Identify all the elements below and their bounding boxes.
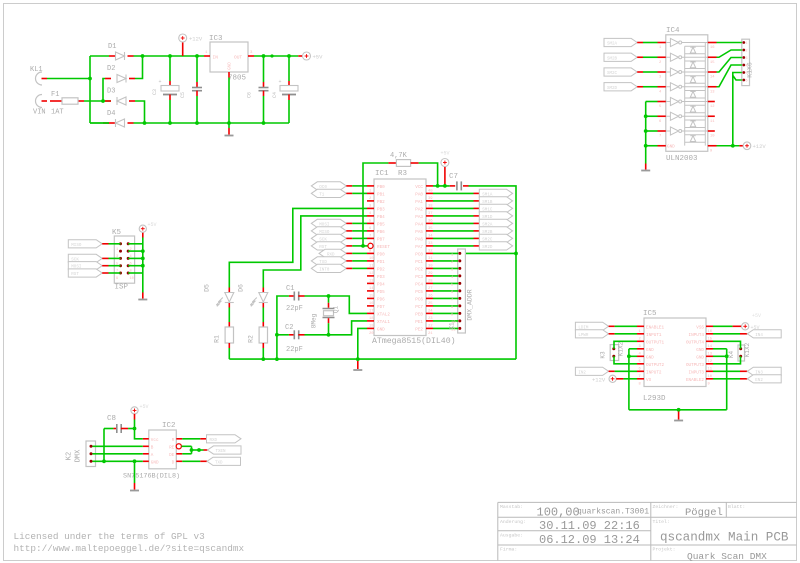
net flag EN2 at IC5 right [713, 378, 740, 380]
svg-text:DE: DE [169, 453, 175, 458]
svg-text:22pF: 22pF [286, 346, 303, 354]
junction R3-VCC [436, 184, 440, 188]
svg-text:PC0: PC0 [415, 252, 423, 257]
svg-text:PD7: PD7 [377, 305, 385, 310]
svg-text:Projekt:: Projekt: [653, 547, 676, 553]
svg-text:PC4: PC4 [415, 282, 423, 287]
svg-text:+: + [279, 79, 282, 85]
junction VIN node [101, 99, 105, 103]
wire IC2 gnd to ground [134, 461, 136, 483]
svg-text:10: 10 [710, 135, 715, 139]
junction K5 row2 [141, 249, 145, 253]
svg-text:1: 1 [746, 42, 748, 46]
svg-text:Licensed under the terms of GP: Licensed under the terms of GPL v3 [14, 531, 206, 542]
svg-text:INT0: INT0 [319, 268, 330, 272]
svg-text:D2: D2 [107, 65, 115, 73]
wire +5V to IC2 Vcc [135, 420, 143, 439]
net flag TXEN at IC2 [204, 449, 208, 451]
title block frame [498, 502, 797, 560]
microcontroller IC1 body [374, 179, 426, 336]
svg-text:PC2: PC2 [415, 267, 423, 272]
diode D3 [105, 100, 111, 102]
net flag SCK at K5 [68, 254, 102, 262]
svg-text:PA4: PA4 [415, 222, 423, 227]
svg-text:ATmega8515(DIL40): ATmega8515(DIL40) [372, 336, 456, 346]
junction KL1 node [88, 77, 92, 81]
svg-text:Pöggel: Pöggel [685, 507, 723, 519]
wire R3 to RESET [363, 163, 388, 246]
capacitor C8 [104, 428, 113, 430]
wire IC1 GND down [358, 328, 367, 359]
junction K5 row4 [141, 264, 145, 268]
svg-text:SM2B: SM2B [607, 57, 618, 61]
svg-text:VSS: VSS [696, 325, 704, 330]
svg-text:D6: D6 [237, 284, 244, 292]
wire IC5 gnd loop bottom [629, 409, 727, 411]
junction center gnd [356, 357, 360, 361]
IC5 pin stubs and names [637, 325, 713, 386]
svg-text:XTAL1: XTAL1 [377, 320, 390, 325]
svg-text:RESET: RESET [377, 245, 390, 250]
svg-text:SM2D: SM2D [607, 87, 618, 91]
net flag MOSI [311, 219, 346, 227]
svg-text:1AT: 1AT [51, 109, 64, 117]
svg-text:PD0: PD0 [377, 252, 385, 257]
net flag SM2C at IC1 right [433, 237, 474, 239]
svg-text:OUTPUT3: OUTPUT3 [686, 363, 704, 368]
svg-text:F1: F1 [51, 91, 59, 99]
IC3 output pin [248, 55, 254, 57]
IC3 gnd pin wire [228, 72, 230, 78]
wires IC1 to X1 pins [433, 252, 461, 333]
net flag TXD at IC2 D [182, 460, 200, 462]
svg-text:100,00: 100,00 [537, 506, 580, 520]
svg-text:C8: C8 [107, 415, 116, 423]
svg-text:K1X2: K1X2 [744, 342, 751, 357]
capacitor C1 [289, 295, 295, 297]
capacitor C7 [450, 185, 455, 187]
wire VIN node vertical [103, 79, 105, 102]
junction C1C2 gnd rail [275, 357, 279, 361]
svg-text:+: + [159, 79, 162, 85]
wire R3 right to VCC [419, 163, 438, 186]
junction IC3 gnd rail [227, 121, 231, 125]
svg-text:B: B [151, 445, 154, 450]
net flag RST at K5 [68, 269, 102, 277]
wire D3 to D4 vertical [135, 101, 145, 123]
svg-text:PB0: PB0 [377, 185, 385, 190]
wire PB3 to LED D5 [229, 208, 367, 287]
junction right gnd [725, 354, 729, 358]
wire C1 to XTAL2 [305, 296, 368, 313]
wire IC4 out2 to K1 pin2 [717, 50, 742, 57]
svg-text:INPUT2: INPUT2 [646, 370, 662, 375]
svg-text:TXEN: TXEN [216, 450, 227, 454]
svg-text:+12V: +12V [189, 36, 203, 43]
svg-text:Q1: Q1 [333, 306, 340, 314]
svg-text:IC1: IC1 [375, 170, 389, 178]
svg-text:TXD: TXD [215, 461, 223, 465]
net flag SM1A at IC1 right [433, 192, 474, 194]
wire bridge left vertical [89, 56, 91, 123]
svg-text:D1: D1 [108, 43, 116, 51]
svg-text:VCC: VCC [415, 185, 423, 190]
junction IC4 in7 [644, 129, 648, 133]
svg-text:OUTPUT2: OUTPUT2 [646, 363, 664, 368]
wire IC5 left gnd [629, 348, 637, 350]
IC1 RESET pin inversion bubble [368, 243, 373, 248]
svg-text:OUTPUT1: OUTPUT1 [646, 340, 664, 345]
wire C2 to XTAL1 [305, 321, 368, 335]
svg-text:PD1: PD1 [377, 260, 385, 265]
net flag T1 at IC1 left row 1 [311, 189, 346, 197]
wire K2 gnd row [93, 460, 143, 462]
net flag OC0 at IC1 left row 0 [311, 182, 346, 190]
svg-text:12: 12 [710, 105, 715, 109]
svg-text:L293D: L293D [643, 395, 666, 403]
svg-text:+5V: +5V [140, 404, 149, 410]
svg-text:PE1: PE1 [415, 320, 423, 325]
junction C6 bottom [262, 121, 266, 125]
LED D5 [228, 288, 230, 293]
junction C3 top [168, 54, 172, 58]
junction RE-DE a [190, 448, 194, 452]
svg-text:K5: K5 [112, 229, 122, 237]
svg-text:R: R [172, 438, 175, 443]
net flag SM2A at IC1 right [433, 222, 474, 224]
svg-text:PA1: PA1 [415, 200, 423, 205]
wire COM to +12V [717, 145, 740, 147]
svg-text:PA3: PA3 [415, 215, 423, 220]
svg-text:K2: K2 [66, 452, 74, 460]
svg-text:SM2C: SM2C [607, 72, 618, 76]
junction C4 top [287, 54, 291, 58]
svg-text:RXD: RXD [210, 439, 218, 443]
svg-text:Ausgabe:: Ausgabe: [500, 533, 523, 539]
svg-text:RE: RE [169, 445, 175, 450]
svg-text:Masstab:: Masstab: [500, 504, 523, 510]
junction R2 gnd rail [261, 357, 265, 361]
junction X1 common [514, 252, 518, 256]
svg-text:D: D [172, 460, 175, 465]
connector K2 DMX body [86, 441, 96, 467]
connector KL1 pad 2 (VIN) [36, 95, 42, 108]
svg-text:PE2: PE2 [415, 327, 423, 332]
svg-text:IC5: IC5 [643, 310, 657, 318]
IC4 clamp diode ladder [685, 43, 706, 146]
wire K2 to IC2 A [93, 453, 143, 455]
svg-text:PB6: PB6 [377, 230, 385, 235]
svg-text:IC2: IC2 [162, 422, 176, 430]
svg-text:D4: D4 [107, 110, 115, 118]
svg-text:21: 21 [428, 332, 433, 336]
wire KL1 to bridge [47, 78, 90, 80]
svg-text:PC7: PC7 [415, 305, 423, 310]
svg-text:9: 9 [116, 277, 118, 281]
power +5V at IC2 [131, 407, 138, 414]
svg-text:11: 11 [710, 120, 715, 124]
voltage regulator IC3 7805 [210, 42, 248, 72]
resistor R1 [228, 308, 230, 323]
svg-text:15: 15 [710, 61, 715, 65]
junction C8 +5V [133, 427, 137, 431]
power +5V at IC5 VSS [713, 325, 733, 327]
net flag IN3 at IC5 right [713, 370, 740, 372]
svg-text:PC6: PC6 [415, 297, 423, 302]
net flag TXD [311, 257, 346, 265]
svg-text:K4: K4 [728, 351, 735, 359]
wire OUTPUT2 to K3 [614, 356, 637, 364]
wire gnd rail center [229, 358, 516, 360]
svg-text:6: 6 [746, 80, 748, 84]
junction RESET node [361, 244, 365, 248]
svg-text:IN: IN [213, 55, 219, 61]
svg-text:INPUT3: INPUT3 [689, 370, 705, 375]
DIP switch connector X1 DMX_ADDR [458, 249, 466, 333]
svg-text:ISP: ISP [115, 284, 129, 292]
svg-text:PB4: PB4 [377, 215, 385, 220]
junction C5 bottom [195, 121, 199, 125]
ground symbol IC2 [134, 483, 136, 490]
svg-text:R2: R2 [247, 335, 254, 343]
svg-text:GND: GND [646, 348, 654, 353]
junction gnd loop [677, 408, 681, 412]
wire K2 to IC2 B [93, 445, 143, 447]
driver IC4 ULN2003 body [666, 35, 708, 152]
capacitor C6 [263, 56, 265, 82]
svg-text:R3: R3 [398, 170, 408, 178]
svg-text:PD2: PD2 [377, 267, 385, 272]
svg-text:SM2A: SM2A [607, 43, 618, 47]
svg-text:7: 7 [451, 298, 453, 302]
svg-text:GND: GND [377, 327, 385, 332]
junction C6 top [262, 54, 266, 58]
wire OUTPUT4 to K4 [713, 341, 741, 349]
svg-text:8Meg: 8Meg [311, 313, 318, 328]
svg-text:Quark Scan DMX: Quark Scan DMX [687, 551, 767, 562]
svg-text:Blatt:: Blatt: [728, 504, 745, 510]
junction C8 gnd [102, 459, 106, 463]
svg-text:PB3: PB3 [377, 207, 385, 212]
svg-text:PA2: PA2 [415, 207, 423, 212]
wire ground rail (bottom) [90, 122, 109, 124]
svg-text:K1X2: K1X2 [618, 341, 625, 356]
svg-text:MISO: MISO [71, 244, 82, 248]
junction C5 top [195, 54, 199, 58]
svg-text:PD3: PD3 [377, 275, 385, 280]
svg-text:14: 14 [710, 76, 715, 80]
wire PB4 to LED D6 [263, 216, 367, 288]
svg-text:PA0: PA0 [415, 192, 423, 197]
wire IC4 out4 to K1 pin4 [717, 65, 742, 87]
connector K5 ISP body [114, 236, 134, 283]
transceiver IC2 SN75176 body [149, 430, 177, 469]
net flag SM2B at IC4 input 2 [604, 53, 637, 61]
net flag SM2A at IC4 input 1 [604, 38, 637, 46]
svg-text:4,7K: 4,7K [390, 152, 408, 160]
svg-text:22pF: 22pF [286, 305, 303, 313]
wire IC4 out3 to K1 pin3 [717, 58, 742, 73]
svg-text:quarkscan.T3001: quarkscan.T3001 [577, 508, 649, 517]
svg-text:Anderung:: Anderung: [500, 519, 526, 525]
net flag IN4 at IC5 right [713, 333, 740, 335]
wire D1 anode [90, 55, 109, 57]
svg-text:C2: C2 [285, 324, 293, 332]
title block small labels [500, 504, 745, 553]
svg-text:INPUT4: INPUT4 [689, 333, 705, 338]
net flag MISO at K5 [68, 240, 102, 248]
wire K5 right pins to +5V/gnd [128, 243, 143, 245]
svg-text:+5V: +5V [752, 313, 761, 319]
svg-text:K3: K3 [600, 351, 607, 359]
svg-text:7: 7 [659, 135, 661, 139]
wire VCC rail IC1 [433, 185, 450, 187]
connector K3 body [610, 345, 619, 361]
wire D1 cathode to D2 cathode vertical [135, 56, 143, 79]
junction C2 left [275, 333, 279, 337]
wire IC5 right gnd [713, 348, 727, 350]
svg-text:PC1: PC1 [415, 260, 423, 265]
junction crystal top [327, 294, 331, 298]
net flag SM1D at IC1 right [433, 215, 474, 217]
svg-text:A: A [151, 453, 154, 458]
junction +5V-VCC [443, 184, 447, 188]
svg-text:IN4: IN4 [755, 334, 763, 338]
svg-text:OUT: OUT [234, 55, 242, 61]
svg-text:XTAL2: XTAL2 [377, 312, 390, 317]
svg-text:EN2: EN2 [755, 379, 763, 383]
svg-text:GND: GND [646, 355, 654, 360]
svg-text:GND: GND [151, 460, 159, 465]
net flag MOSI at K5 [68, 262, 102, 270]
svg-text:PD6: PD6 [377, 297, 385, 302]
net flag SM2B at IC1 right [433, 230, 474, 232]
svg-text:PB2: PB2 [377, 200, 385, 205]
diode D2 [105, 78, 111, 80]
power +5V (regulator output) [298, 55, 302, 57]
IC2 pin stubs and names [143, 438, 183, 466]
svg-text:1: 1 [116, 248, 118, 252]
svg-text:http://www.maltepoeggel.de/?si: http://www.maltepoeggel.de/?site=qscandm… [14, 543, 245, 554]
connector KL1 pad 1 [36, 72, 42, 85]
svg-text:IN2: IN2 [578, 371, 586, 375]
svg-text:3: 3 [746, 57, 748, 61]
net flag RXD [319, 249, 346, 257]
junction IC2 gnd down [133, 459, 137, 463]
svg-text:RST: RST [71, 273, 79, 277]
svg-text:LPWR: LPWR [578, 334, 589, 338]
junction IC4 in6 [644, 114, 648, 118]
fuse F1 [50, 100, 62, 102]
net flag INP2 at IC5 left [575, 367, 608, 375]
svg-text:+5V: +5V [313, 54, 324, 61]
connector K4 body [738, 345, 745, 361]
junction K5 row3 [141, 257, 145, 261]
svg-text:C4: C4 [272, 92, 278, 98]
svg-text:X1: X1 [449, 322, 456, 330]
ground symbol IC5 [678, 412, 680, 420]
net flag SM1B at IC1 right [433, 200, 474, 202]
junction RE-DE b [197, 448, 201, 452]
svg-text:C7: C7 [449, 173, 458, 181]
svg-text:D3: D3 [107, 88, 115, 96]
crystal Q1 [328, 296, 330, 303]
svg-text:IC4: IC4 [666, 27, 680, 35]
motor driver IC5 L293D body [644, 318, 706, 387]
svg-text:16: 16 [710, 46, 715, 50]
wire IC4 unused inputs to gnd [646, 101, 658, 103]
net flag MISO [311, 227, 346, 235]
svg-text:PC3: PC3 [415, 275, 423, 280]
junction crystal bottom [327, 333, 331, 337]
svg-text:C1: C1 [286, 285, 294, 293]
svg-text:ENABLE1: ENABLE1 [646, 325, 664, 330]
net flag SM1C at IC1 right [433, 207, 474, 209]
svg-text:30.11.09 22:16: 30.11.09 22:16 [539, 519, 640, 533]
wire +12V rail [134, 55, 205, 57]
wire RE-DE tie [182, 445, 192, 447]
net flag LPWR at IC5 left [575, 330, 608, 338]
junction +5V rail [270, 54, 273, 57]
svg-text:ENABLE2: ENABLE2 [686, 378, 704, 383]
resistor R2 [262, 308, 264, 323]
wire +5V rail out [254, 55, 298, 57]
svg-text:C5: C5 [180, 92, 186, 98]
diode D1 [109, 55, 116, 57]
svg-text:IC3: IC3 [209, 35, 223, 43]
net flag SM2D at IC4 input 4 [604, 83, 637, 91]
svg-text:PD4: PD4 [377, 282, 385, 287]
wire D4 row left [90, 122, 109, 124]
svg-text:10: 10 [130, 277, 134, 281]
IC2 RE pin bubble [176, 444, 181, 449]
svg-text:GND: GND [667, 144, 675, 149]
ground symbol center [357, 361, 359, 369]
power +12V at IC4 [743, 142, 751, 150]
svg-text:VIN: VIN [33, 109, 46, 117]
net flag INT0 [311, 264, 346, 272]
K1 pin dots [742, 41, 747, 83]
power +12V (input rail) [182, 43, 184, 57]
LED D6 [262, 288, 264, 293]
svg-text:Firma:: Firma: [500, 547, 517, 553]
svg-text:PA5: PA5 [415, 230, 423, 235]
svg-text:GND: GND [696, 348, 704, 353]
IC1 pin stubs and pin names [367, 185, 433, 336]
junction COM +12V [731, 144, 735, 148]
IC4 pin stubs [658, 43, 717, 154]
wire K1 spare pins to +12V [733, 73, 742, 146]
ground symbol at K5 [142, 293, 144, 299]
svg-text:C6: C6 [247, 92, 253, 98]
net flag LDIM at IC5 left [575, 322, 608, 330]
power +5V at K5 [142, 232, 144, 238]
junction IC4 gnd [644, 144, 648, 148]
svg-text:PE0: PE0 [415, 312, 423, 317]
junction +12V rail [141, 54, 145, 58]
svg-text:PC5: PC5 [415, 290, 423, 295]
power +12V at IC5 VS [609, 375, 616, 382]
svg-text:INPUT1: INPUT1 [646, 333, 662, 338]
wire fuse to D3 [84, 100, 111, 102]
svg-text:SM2D: SM2D [482, 246, 493, 250]
svg-text:Vcc: Vcc [151, 438, 159, 443]
svg-text:+5V: +5V [148, 222, 157, 228]
ground symbol below IC3 [228, 123, 230, 128]
net flag SCK [311, 234, 346, 242]
IC3 input pin [204, 55, 210, 57]
wire IC4 out1 to K1 pin1 [717, 42, 742, 44]
